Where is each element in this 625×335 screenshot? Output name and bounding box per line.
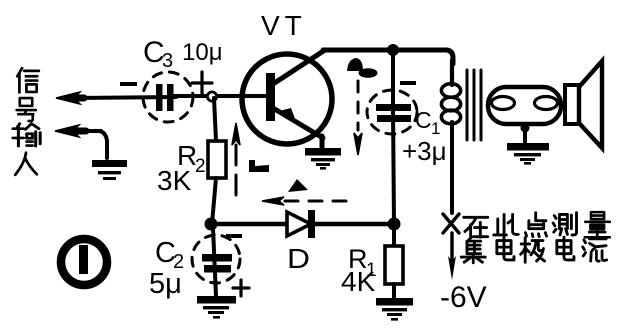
resistor R2: [208, 141, 226, 178]
wire R1 to ground: [392, 284, 396, 298]
svg-text:4K: 4K: [341, 266, 376, 297]
wire primary bottom down: [450, 122, 454, 213]
label minus (C3): [120, 82, 137, 86]
svg-text:2: 2: [195, 156, 206, 177]
信: [17, 68, 39, 92]
svg-text:10μ: 10μ: [182, 39, 223, 66]
label R2 3K: [157, 140, 206, 196]
svg-text:VT: VT: [261, 10, 307, 41]
wire emitter down: [320, 136, 325, 150]
speaker: [565, 61, 602, 148]
wire node to diode: [211, 222, 287, 227]
annotation flag blob top: [347, 58, 363, 71]
集: [461, 238, 485, 263]
wire R2 to node: [212, 178, 216, 224]
annotation blob L-mark: [249, 160, 269, 172]
capacitor C2 (dashed circle): [192, 228, 240, 296]
svg-text:3: 3: [162, 50, 173, 72]
emitter line: [273, 108, 323, 138]
capacitor C1 (dashed circle): [367, 50, 417, 224]
capacitor C3 (dashed circle): [143, 72, 193, 122]
wire collector top rail: [323, 48, 447, 53]
label minus (C1): [400, 81, 416, 85]
annotation dashed arrow left (horizontal): [262, 197, 348, 205]
量: [585, 212, 610, 237]
diode D: [287, 210, 315, 238]
svg-text:3K: 3K: [157, 165, 192, 196]
label C3 10u: [143, 36, 223, 72]
wire input ground branch with arrow: [55, 125, 107, 158]
ground (input): [92, 160, 127, 180]
label minus (C2): [226, 234, 242, 238]
wire bend into transformer: [447, 50, 453, 64]
node collector-bias junction: [388, 218, 401, 231]
输: [13, 124, 40, 146]
resistor R1: [385, 246, 403, 284]
label R1 4K: [341, 244, 377, 297]
wire node to R1: [392, 230, 396, 246]
transformer secondary winding: [488, 87, 561, 124]
wire base node down to R2: [214, 98, 216, 141]
annotation dashed arrow down (right of VT): [354, 81, 362, 155]
supply arrowhead down: [448, 256, 456, 280]
node input-signal text 信号输入: [13, 68, 40, 175]
annotation text line1 在此点测量: [464, 212, 610, 237]
电: [557, 237, 574, 260]
此: [494, 214, 519, 235]
极: [521, 238, 545, 263]
X measurement mark: [443, 214, 459, 233]
label plus (C2): [233, 280, 249, 296]
annotation text line2 集电极电流: [461, 237, 606, 263]
ground (secondary): [507, 143, 549, 165]
node base junction (open circle): [207, 92, 216, 101]
在: [464, 217, 488, 237]
ground (R1): [376, 298, 413, 321]
svg-text:-6V: -6V: [440, 281, 487, 314]
svg-text:5μ: 5μ: [149, 268, 182, 300]
emitter arrow (PNP): [279, 108, 297, 124]
node tap dot: [521, 124, 530, 133]
入: [15, 153, 37, 175]
annotation dashed arrow up (left, beside R2): [232, 123, 240, 198]
wire X to supply arrow: [450, 233, 453, 262]
ground (emitter): [305, 148, 341, 170]
wire input signal line with arrow: [56, 92, 176, 104]
annotation solid triangle: [288, 179, 308, 192]
svg-text:C: C: [415, 107, 432, 133]
wire diode to node: [313, 222, 394, 227]
figure number circled 1: [61, 239, 107, 285]
transformer primary coil: [441, 60, 460, 124]
label C2 5u: [149, 237, 184, 300]
wire C3 to base: [174, 94, 265, 98]
svg-text:+3μ: +3μ: [402, 136, 447, 166]
ground (C2): [197, 296, 236, 319]
wire secondary centre tap: [523, 125, 527, 145]
collector line: [273, 50, 325, 84]
电: [497, 237, 514, 260]
label plus (C3): [192, 72, 212, 94]
transistor VT: [242, 50, 332, 144]
node bias junction: [205, 218, 218, 231]
label C1 +3u: [402, 107, 447, 166]
号: [17, 98, 36, 121]
流: [583, 237, 607, 262]
测: [553, 213, 576, 235]
点: [525, 213, 546, 237]
node collector junction dot: [387, 44, 399, 56]
svg-text:D: D: [287, 243, 310, 274]
transformer core: [467, 70, 481, 140]
